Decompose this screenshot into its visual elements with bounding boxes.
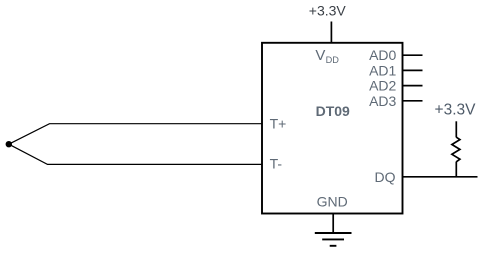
svg-text:T-: T-: [270, 155, 283, 171]
svg-text:DT09: DT09: [316, 103, 350, 119]
IC U1 body (DT09 sensor): [262, 43, 403, 214]
wire GND pin to ground: [332, 214, 334, 234]
wire resistor R1 to DQ net: [455, 162, 457, 177]
wire +3.3V to VDD pin: [330, 22, 332, 43]
svg-text:+3.3V: +3.3V: [435, 102, 477, 119]
pin stub AD0: [403, 54, 423, 56]
svg-text:AD1: AD1: [369, 62, 396, 78]
resistor R1 (pull-up): [452, 137, 460, 162]
svg-text:AD2: AD2: [369, 78, 396, 94]
svg-text:DD: DD: [326, 55, 340, 65]
wire probe to T-: [9, 144, 262, 164]
pin stub AD1: [403, 69, 423, 71]
probe node (thermistor junction): [6, 141, 12, 147]
pin stub AD3: [403, 100, 423, 102]
wire probe to T+: [9, 124, 262, 145]
ground bar 2: [322, 238, 344, 240]
svg-text:+3.3V: +3.3V: [309, 3, 347, 19]
wire DQ net: [403, 176, 478, 178]
pin stub AD2: [403, 85, 423, 87]
svg-text:T+: T+: [270, 115, 287, 131]
wire +3.3V to resistor R1: [455, 121, 457, 137]
svg-text:AD0: AD0: [369, 47, 396, 63]
svg-text:AD3: AD3: [369, 93, 396, 109]
svg-text:DQ: DQ: [375, 169, 396, 185]
ground bar 3: [330, 245, 337, 247]
svg-text:GND: GND: [317, 193, 348, 209]
svg-text:V: V: [315, 47, 325, 64]
ground bar 1: [315, 232, 352, 234]
